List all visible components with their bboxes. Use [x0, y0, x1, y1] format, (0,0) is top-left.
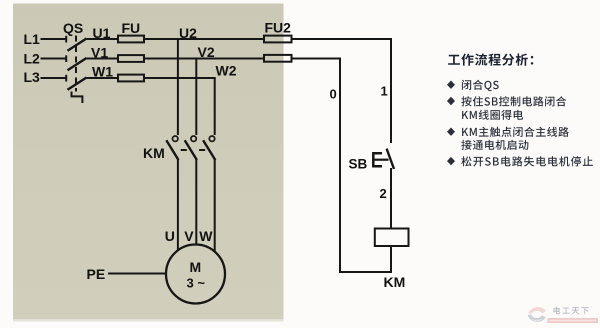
switch QS pole 2 blade	[68, 58, 87, 70]
svg-text:SB: SB	[349, 157, 368, 172]
contactor KM main contact 1 fixed circle	[173, 136, 178, 141]
button SB operator middle arm and link	[373, 159, 388, 161]
svg-text:1: 1	[381, 84, 388, 99]
wire U2 drop	[177, 39, 179, 135]
svg-text:FU: FU	[122, 20, 141, 36]
wire coil to bottom	[390, 246, 392, 273]
switch QS handle	[72, 92, 83, 104]
text b3b: 接通电机启动	[461, 140, 528, 150]
contactor KM main contact 2 blade	[185, 140, 197, 160]
svg-text:V1: V1	[91, 45, 108, 61]
svg-text:QS: QS	[63, 20, 83, 36]
wire motor lead V	[195, 159, 197, 245]
wire L2 stub	[41, 58, 66, 60]
text b4: 松开SB电路失电电机停止	[461, 156, 593, 166]
wire U1: QS to FU	[87, 38, 119, 40]
motor M circle	[166, 245, 225, 304]
contactor KM linkage dash 2	[199, 149, 205, 151]
svg-text:KM: KM	[143, 145, 165, 161]
wire node 0 vertical	[339, 58, 341, 274]
svg-text:W1: W1	[92, 64, 113, 80]
switch QS pole 3 contact tick	[65, 75, 67, 82]
svg-text:U1: U1	[93, 25, 111, 41]
coil KM rectangle	[375, 229, 409, 247]
switch QS pole 1 blade	[68, 39, 87, 51]
text b1: 闭合QS	[462, 80, 499, 91]
svg-text:0: 0	[330, 87, 337, 102]
switch QS pole 2 contact tick	[65, 55, 67, 62]
switch QS pole 1 contact tick	[65, 36, 67, 43]
wire motor lead W	[214, 159, 216, 252]
wire V2 drop	[195, 59, 197, 136]
fuse FU2 pole 1	[264, 36, 292, 43]
contactor KM main contact 3 fixed circle	[209, 136, 214, 141]
svg-text:U2: U2	[179, 25, 197, 41]
svg-text:L2: L2	[24, 51, 41, 67]
svg-text:3 ~: 3 ~	[187, 276, 206, 291]
fuse FU pole 2	[118, 55, 144, 62]
watermark logo icon	[528, 307, 546, 322]
svg-text:V: V	[184, 228, 194, 244]
svg-text:PE: PE	[87, 266, 106, 282]
wire W2 horizontal	[144, 77, 216, 79]
switch QS linkage dashed bar	[75, 36, 77, 92]
text b3a: KM主触点闭合主线路	[462, 127, 569, 137]
wire W2 drop	[214, 78, 216, 135]
wire V2 horizontal: FU to FU2	[144, 58, 264, 60]
text b2b: KM线圈得电	[462, 110, 523, 120]
contactor KM main contact 3 blade	[203, 140, 215, 160]
fuse FU pole 3	[118, 75, 144, 82]
text logotext: 电工天下	[554, 307, 589, 314]
svg-text:M: M	[190, 259, 202, 275]
button SB blade	[387, 149, 394, 169]
contactor KM main contact 2 fixed circle	[191, 136, 196, 141]
wire W1: QS to FU	[87, 77, 119, 79]
button SB operator E shape	[373, 153, 382, 166]
fuse FU pole 1	[118, 36, 144, 43]
wire SB to coil	[390, 168, 392, 229]
svg-text:W2: W2	[216, 63, 237, 79]
wire phase 2 to control node 0	[292, 58, 342, 60]
svg-text:V2: V2	[198, 44, 215, 60]
wire phase 1 to control node 1	[292, 38, 393, 40]
svg-text:W: W	[199, 228, 213, 244]
watermark banner	[548, 318, 599, 323]
fuse FU2 pole 2	[264, 55, 292, 62]
bullet diamond 4	[447, 157, 455, 165]
svg-text:2: 2	[380, 186, 387, 201]
bullet diamond 2	[447, 97, 455, 105]
wire motor lead U	[177, 159, 179, 251]
contactor KM linkage dash 1	[181, 149, 187, 151]
wire L3 stub	[41, 77, 66, 79]
text title: 工作流程分析：	[448, 53, 533, 65]
svg-text:KM: KM	[384, 274, 406, 290]
text b2a: 按住SB控制电路闭合	[461, 96, 566, 106]
svg-text:L3: L3	[24, 69, 41, 85]
wire bottom horizontal	[339, 271, 392, 273]
svg-text:FU2: FU2	[265, 20, 292, 36]
bullet diamond 3	[447, 128, 455, 136]
olive schematic panel	[13, 4, 284, 322]
wire U2 horizontal: FU to FU2	[144, 38, 264, 40]
wire PE	[108, 273, 167, 275]
svg-text:L1: L1	[24, 31, 41, 47]
contactor KM main contact 1 blade	[166, 140, 178, 160]
svg-text:U: U	[165, 228, 175, 244]
wire node 1 vertical	[390, 38, 392, 143]
wire L1 stub	[41, 38, 66, 40]
wire V1: QS to FU	[87, 58, 119, 60]
switch QS pole 3 blade	[68, 78, 87, 90]
bullet diamond 1	[447, 81, 455, 166]
